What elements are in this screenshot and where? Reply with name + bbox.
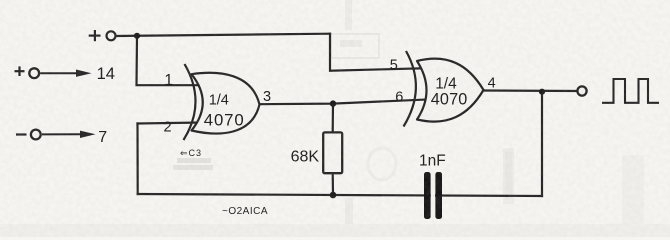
capacitor C1 1nF gap eraser [431, 170, 435, 221]
node: resistor top junction [330, 100, 336, 106]
wire: gate2 output to terminal [484, 89, 578, 92]
label: - sign left [16, 133, 27, 135]
op-amp gate: XOR U1b body [417, 59, 484, 122]
label: + sign left [15, 66, 25, 76]
terminal: + supply circle [107, 31, 116, 40]
label: + sign at supply [89, 30, 101, 41]
square wave output symbol [602, 79, 659, 103]
wire: feed down to gate2 pin5 [330, 34, 424, 71]
wire: resistor top lead [332, 104, 334, 132]
wire: top supply horizontal [115, 34, 330, 36]
wire: resistor bottom lead [332, 173, 334, 195]
resistor R1 68K body [323, 132, 342, 173]
terminal: +V input circle left [29, 68, 39, 78]
XOR U1a front arc [184, 64, 196, 140]
node: resistor bottom junction [330, 192, 337, 199]
terminal: -V input circle left [31, 130, 41, 140]
XOR U1b front arc [404, 51, 416, 127]
wire: arrow to pin 14 [40, 72, 78, 74]
wire: arrow to pin 7 [42, 133, 81, 135]
node: output junction [539, 89, 545, 95]
node: supply junction [134, 33, 140, 39]
capacitor C1 right plate [435, 172, 442, 219]
wire: left vertical of feedback loop [136, 124, 138, 195]
wire: gate1 output to gate2 pin6 [259, 100, 427, 105]
wire: right vertical feedback [541, 92, 543, 196]
wire: plus junction down to gate1 pin1 [137, 36, 203, 85]
wire: bottom feedback horizontal [138, 194, 542, 196]
wire: gate1 pin2 stub [138, 123, 202, 124]
capacitor C1 left plate [424, 172, 431, 219]
op-amp gate: XOR U1a body [192, 73, 260, 134]
terminal: output circle [577, 86, 586, 95]
